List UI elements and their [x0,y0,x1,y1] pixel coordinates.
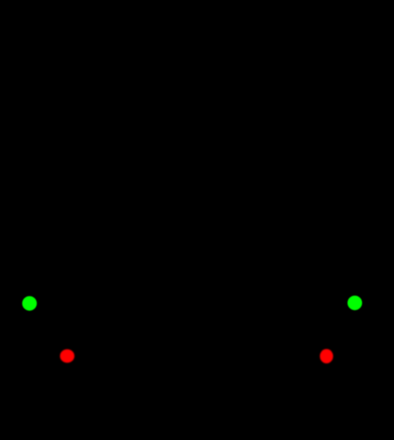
LED green left [22,296,37,311]
LED red left [60,349,74,363]
LED red right [320,349,333,363]
LED green right [348,296,363,311]
